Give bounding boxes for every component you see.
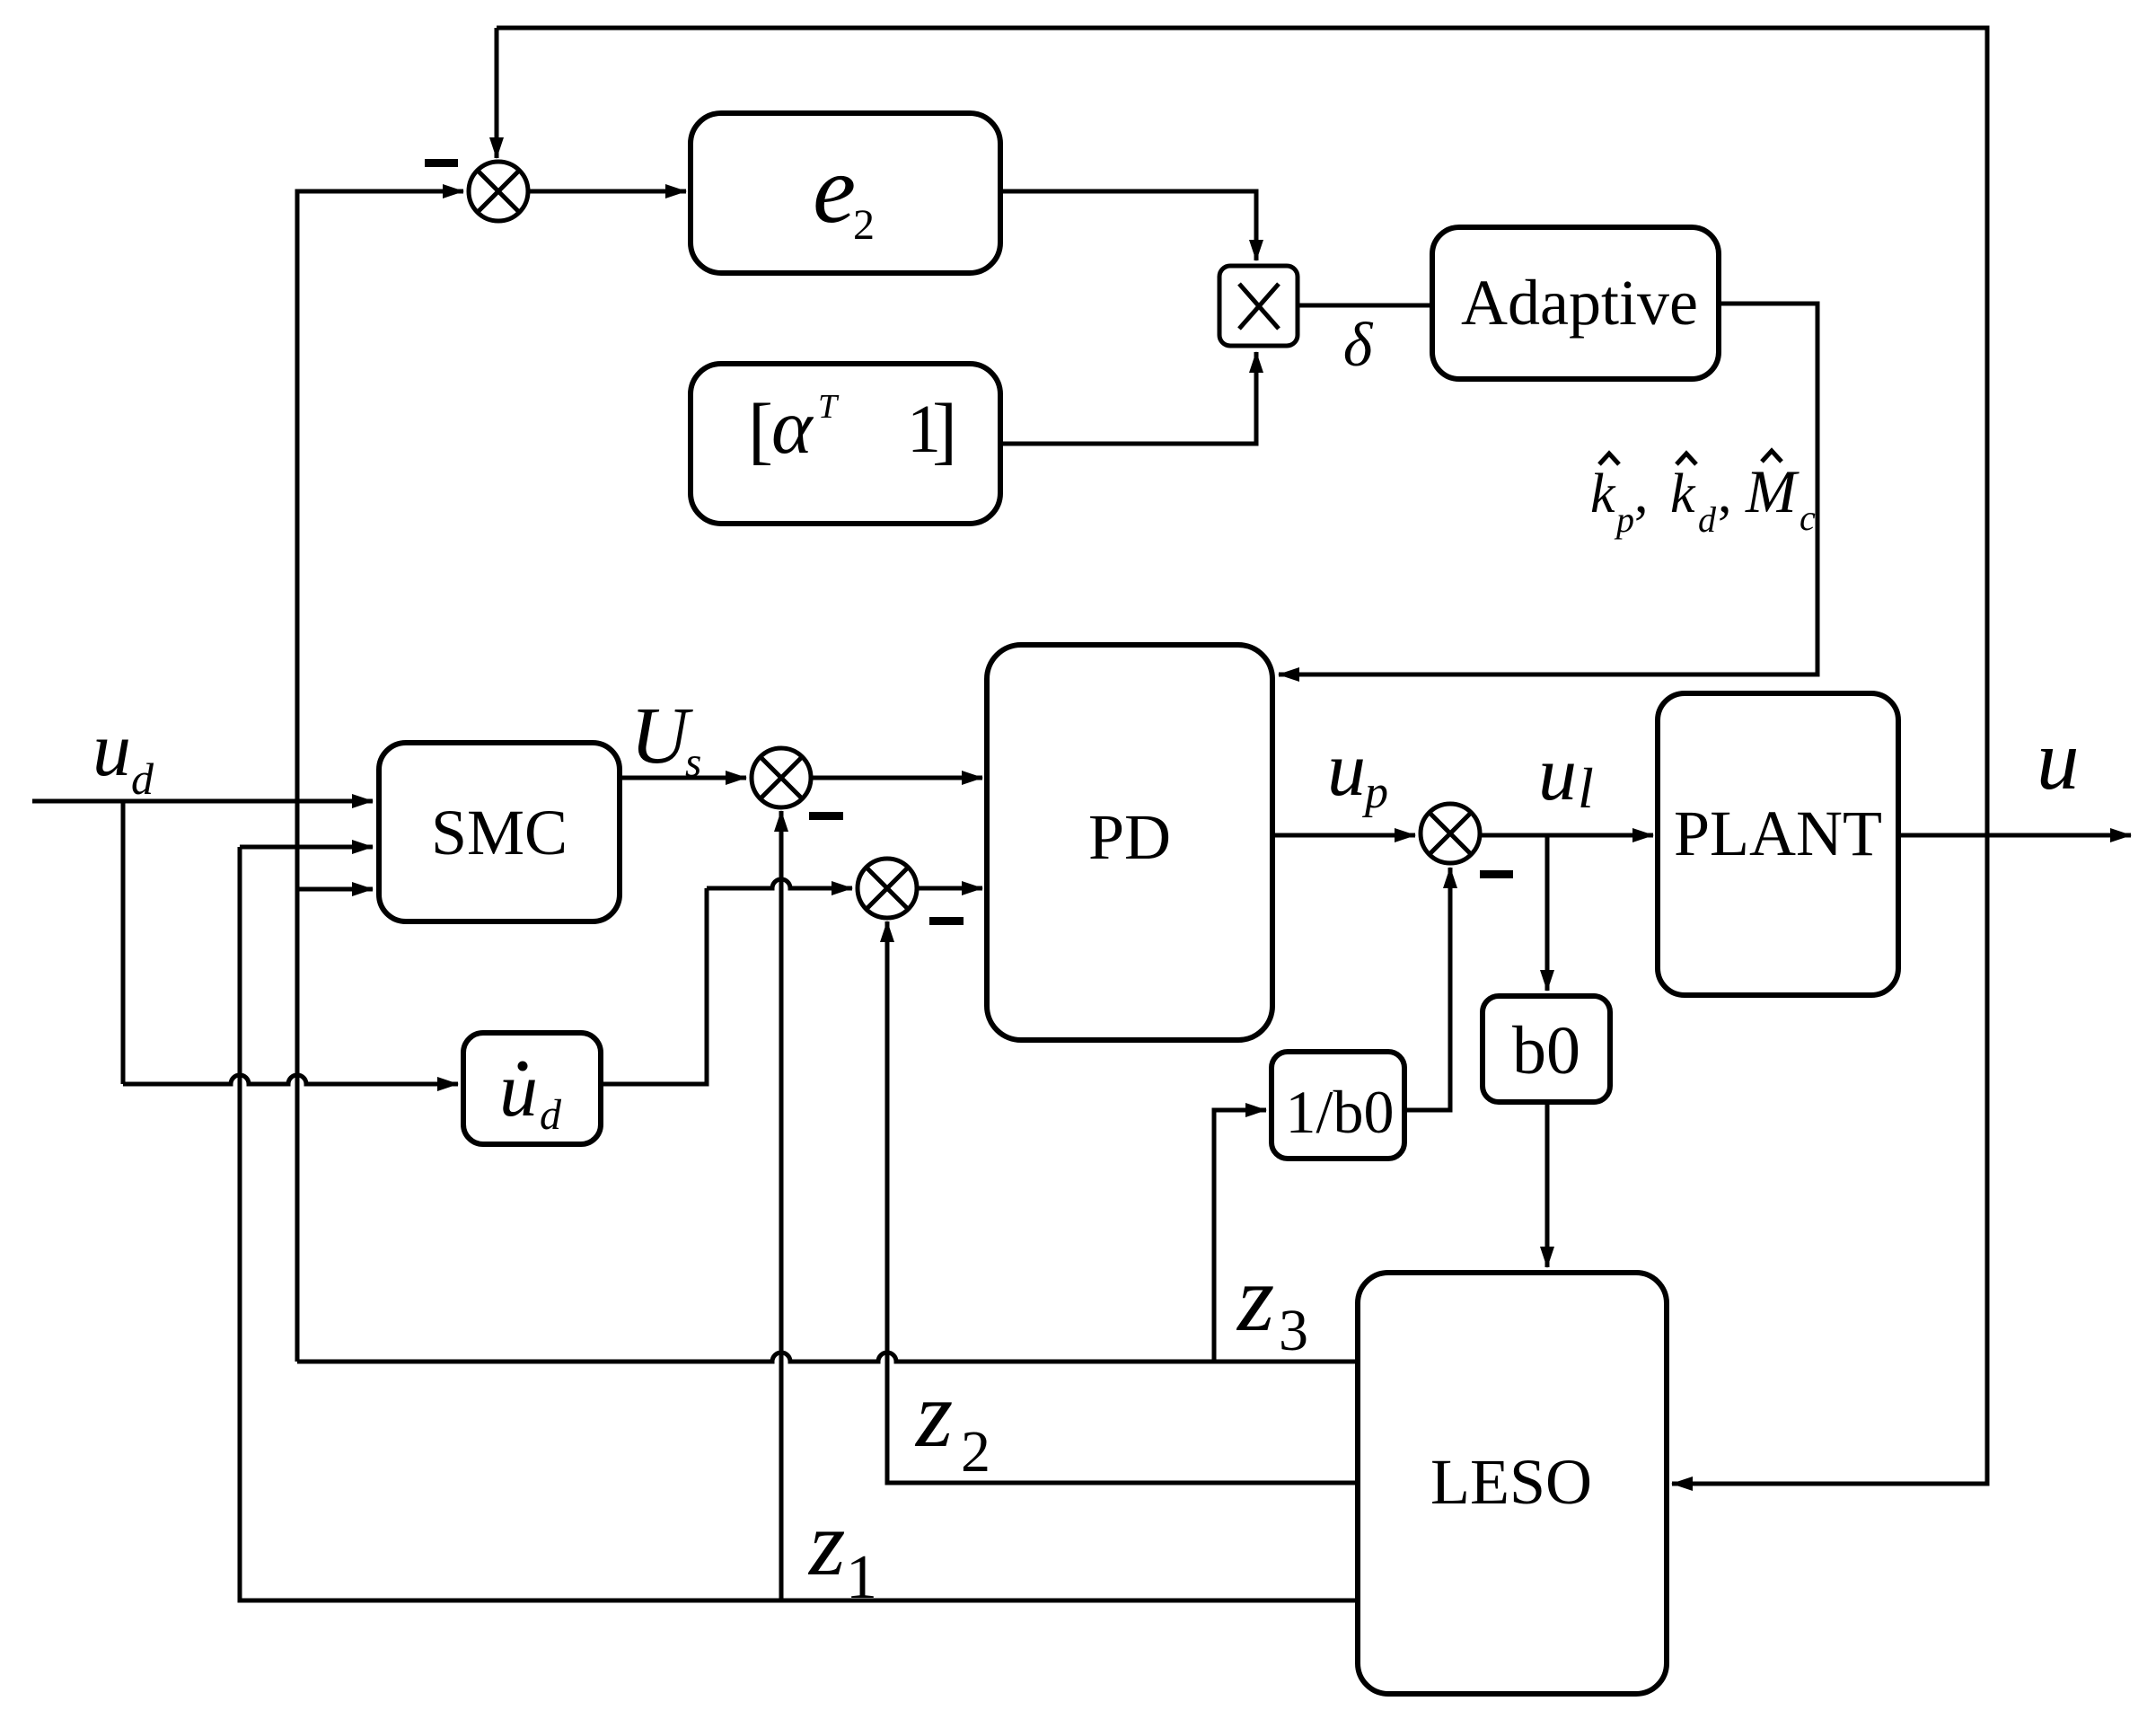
svg-text:u: u [92,706,131,792]
block PLANT [1658,693,1898,995]
svg-text:2: 2 [961,1419,990,1485]
block b0 [1483,996,1610,1102]
wire branch into SMC input3 [297,887,373,892]
wire Z1 vertical into sum1 [779,811,784,1600]
svg-text:U: U [630,692,693,780]
svg-text:c: c [1800,498,1816,538]
svg-text:e: e [813,137,856,243]
wire sum3 to PLANT [1480,833,1653,838]
wire Adaptive to PD [1279,304,1817,674]
block Adaptive [1432,227,1719,379]
svg-text:SMC: SMC [431,797,568,868]
svg-text:T: T [818,388,840,426]
summing junction top [469,162,528,221]
svg-text:M: M [1745,457,1800,525]
minus sign top sum [425,159,458,167]
wire Z1 from LESO to SMC input2 [240,847,1358,1600]
wire udot out to sum2 with hop [601,879,852,1084]
svg-text:2: 2 [853,201,875,249]
svg-text:]: ] [932,389,957,472]
wire outer feedback top [497,28,1987,1484]
svg-text:[: [ [748,389,773,472]
minus sign sum2 [929,917,964,925]
block udot d [463,1033,601,1144]
wire 1/b0 up into sum3 [1404,868,1450,1110]
wire b0 down to LESO [1545,1102,1550,1267]
wire top sum to e2 [528,190,686,194]
svg-text:d: d [540,1091,562,1139]
wire sum2 to PD [917,886,982,891]
block 1/b0 [1272,1052,1404,1159]
svg-text:u: u [1327,726,1366,812]
summing junction 2 [858,859,917,918]
svg-text:u: u [2037,712,2080,807]
wire multiplier to Adaptive [1298,304,1432,308]
svg-text:z: z [807,1492,845,1595]
wire PD out to sum3 [1272,833,1415,838]
svg-text:k: k [1670,463,1696,525]
svg-text:PLANT: PLANT [1674,798,1882,869]
svg-text:,: , [1718,463,1732,525]
wire e2 to multiplier [1000,191,1256,260]
wire SMC out to sum1 [620,776,746,780]
svg-text:1/b0: 1/b0 [1286,1078,1395,1146]
wire into top sum from above [495,28,499,158]
svg-text:d: d [131,754,154,804]
block PD [987,645,1272,1040]
svg-text:α: α [771,383,814,470]
svg-text:1: 1 [846,1543,877,1612]
svg-text:k: k [1590,463,1616,525]
multiplier box [1219,266,1298,346]
block LESO [1358,1273,1667,1694]
svg-text:l: l [1578,756,1594,820]
svg-text:s: s [685,739,701,786]
summing junction 1 [752,748,811,807]
wire PLANT output u [1898,833,2131,838]
svg-text:p: p [1361,767,1388,818]
wire Z3 branch to 1/b0 [1214,1110,1266,1362]
block alphaT 1 [691,364,1000,524]
svg-text:3: 3 [1279,1298,1308,1363]
wire Z3 from LESO with hops [297,1353,1358,1362]
svg-text:Adaptive: Adaptive [1461,267,1698,339]
summing junction 3 [1421,804,1480,863]
svg-text:z: z [914,1362,953,1467]
svg-text:z: z [1236,1246,1274,1351]
block SMC [379,743,620,921]
svg-text:p: p [1614,499,1634,540]
svg-text:PD: PD [1088,801,1171,873]
svg-text:u: u [1538,730,1577,816]
wire sum1 to PD [811,776,982,780]
svg-text:LESO: LESO [1430,1446,1592,1518]
svg-text:u: u [499,1046,538,1133]
svg-text:d: d [1698,499,1717,540]
minus sign sum3 [1480,870,1513,878]
block e2 [691,113,1000,273]
svg-text:,: , [1634,463,1649,525]
wire Z2 from LESO into sum2 [887,921,1358,1483]
minus sign sum1 [809,812,843,820]
wire ud input to SMC [32,799,373,804]
wire ud branch to udot block with hops [123,801,458,1084]
wire branch down into b0 [1545,835,1550,991]
svg-text:b0: b0 [1512,1013,1580,1089]
svg-text:δ: δ [1343,311,1374,380]
wire alpha block to multiplier [1000,352,1256,444]
wire Z3 vertical trunk to top sum [297,191,463,1362]
